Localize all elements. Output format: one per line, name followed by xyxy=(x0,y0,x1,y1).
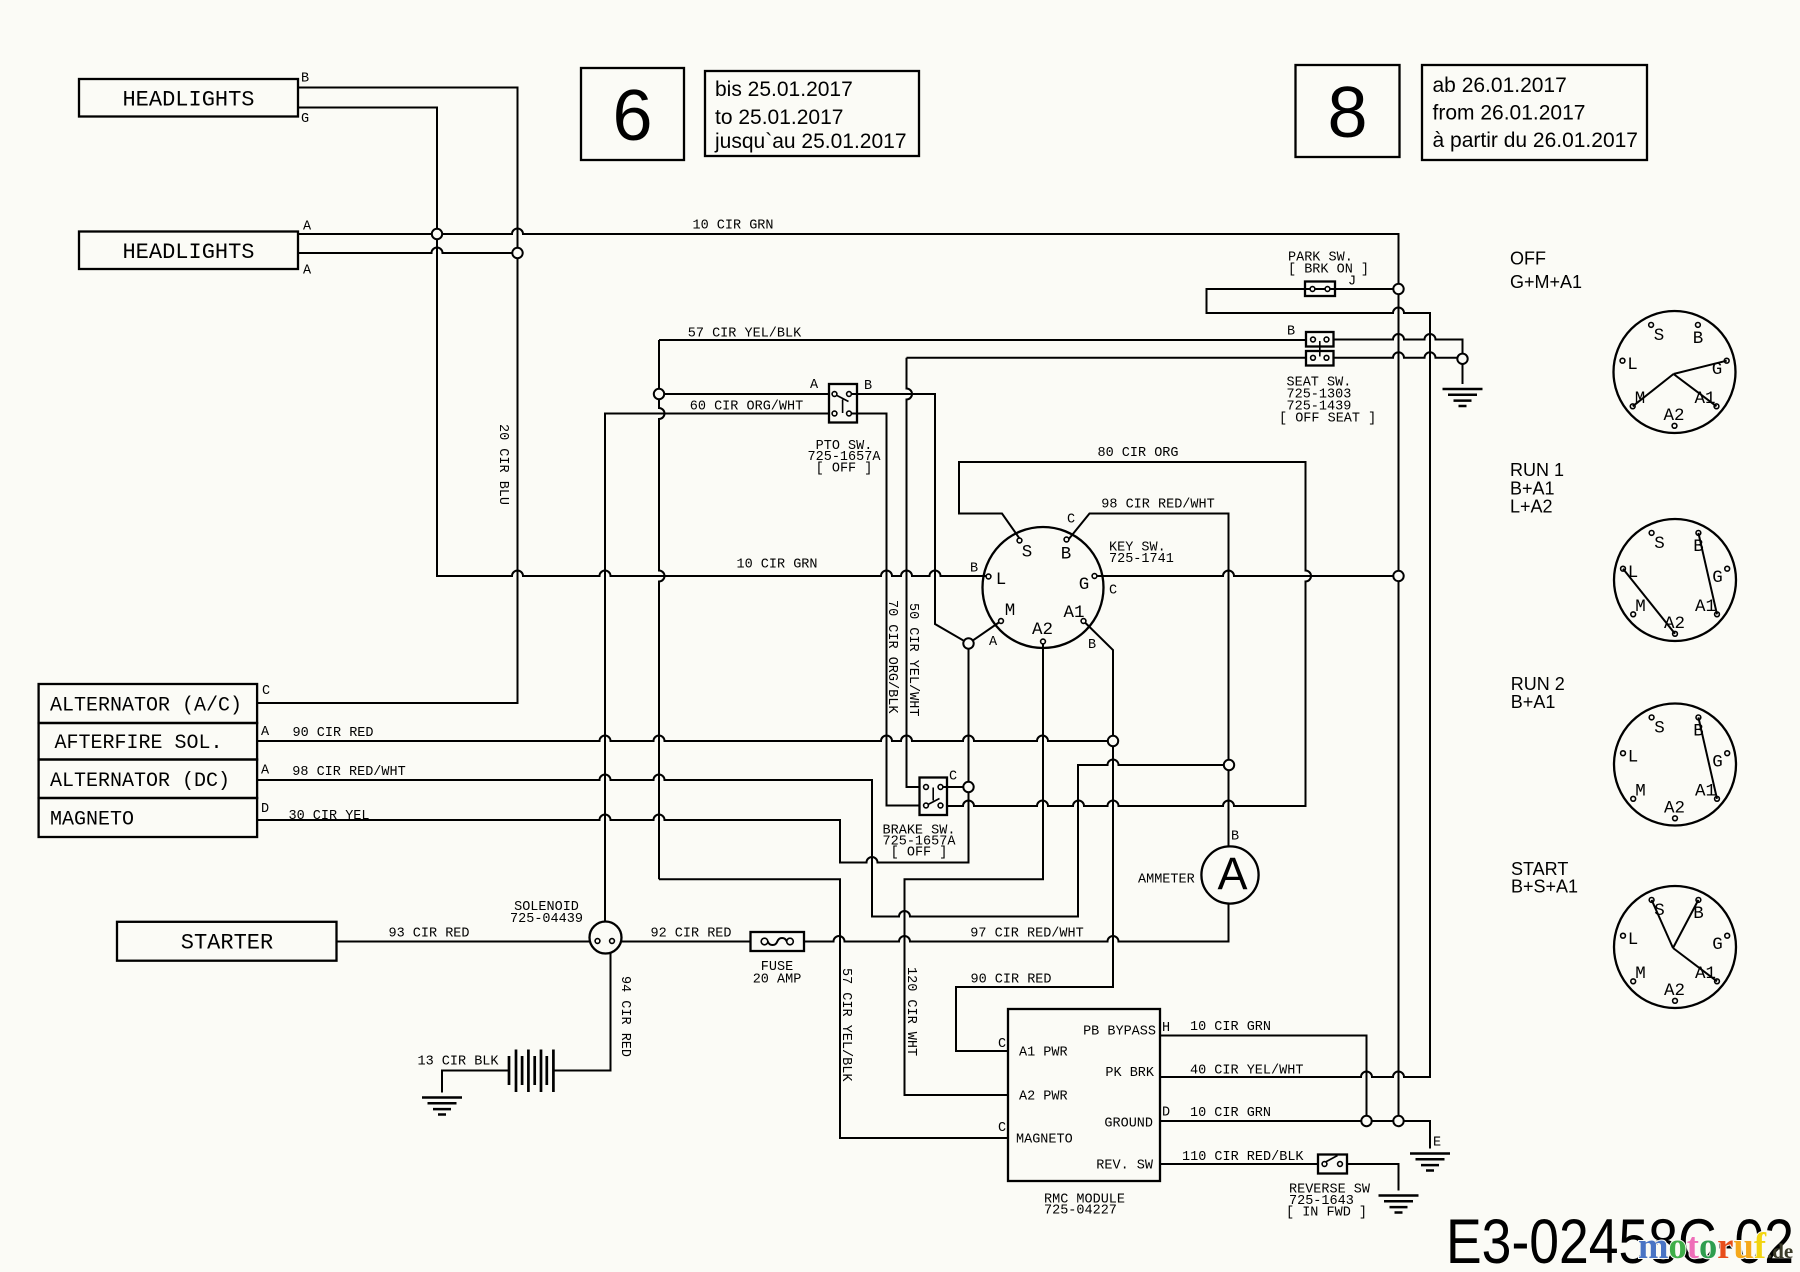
svg-text:HEADLIGHTS: HEADLIGHTS xyxy=(122,240,254,265)
svg-text:STARTER: STARTER xyxy=(181,931,273,956)
svg-text:REV. SW: REV. SW xyxy=(1096,1159,1154,1174)
svg-text:G: G xyxy=(1712,568,1723,588)
svg-text:L: L xyxy=(1628,748,1639,768)
svg-text:50 CIR YEL/WHT: 50 CIR YEL/WHT xyxy=(905,603,920,716)
svg-text:[ BRK ON ]: [ BRK ON ] xyxy=(1288,263,1369,278)
svg-text:A2: A2 xyxy=(1032,620,1053,640)
svg-text:E: E xyxy=(1433,1136,1441,1151)
svg-text:A: A xyxy=(261,725,270,740)
svg-text:A: A xyxy=(810,378,819,393)
svg-text:A2: A2 xyxy=(1664,799,1685,819)
svg-text:98 CIR RED/WHT: 98 CIR RED/WHT xyxy=(292,765,405,780)
svg-text:M: M xyxy=(1635,964,1646,984)
svg-text:B: B xyxy=(1693,329,1704,349)
svg-text:40 CIR YEL/WHT: 40 CIR YEL/WHT xyxy=(1190,1064,1303,1079)
svg-text:20 AMP: 20 AMP xyxy=(753,973,802,988)
svg-text:OFF: OFF xyxy=(1510,249,1546,269)
svg-text:L: L xyxy=(1628,930,1639,950)
svg-text:[ OFF SEAT ]: [ OFF SEAT ] xyxy=(1279,412,1376,427)
svg-text:C: C xyxy=(262,684,270,699)
svg-text:A2: A2 xyxy=(1664,981,1685,1001)
svg-text:D: D xyxy=(261,802,269,817)
svg-text:motoruf: motoruf xyxy=(1638,1226,1767,1267)
svg-text:A: A xyxy=(303,220,312,235)
svg-text:8: 8 xyxy=(1327,73,1367,153)
svg-text:B+S+A1: B+S+A1 xyxy=(1511,877,1578,897)
svg-text:[ IN FWD ]: [ IN FWD ] xyxy=(1286,1206,1367,1221)
svg-text:bis 25.01.2017: bis 25.01.2017 xyxy=(715,78,853,101)
svg-text:B+A1: B+A1 xyxy=(1511,692,1556,712)
svg-text:A: A xyxy=(989,635,998,650)
svg-text:B: B xyxy=(864,379,872,394)
svg-text:G: G xyxy=(1712,753,1723,773)
svg-text:M: M xyxy=(1005,601,1016,621)
svg-text:G: G xyxy=(1079,575,1090,595)
svg-text:57 CIR YEL/BLK: 57 CIR YEL/BLK xyxy=(688,327,802,342)
svg-text:A: A xyxy=(303,264,312,279)
svg-text:MAGNETO: MAGNETO xyxy=(1016,1133,1073,1148)
svg-text:[ OFF ]: [ OFF ] xyxy=(891,846,948,861)
svg-text:120 CIR WHT: 120 CIR WHT xyxy=(903,967,918,1056)
svg-text:A2: A2 xyxy=(1663,406,1684,426)
svg-text:H: H xyxy=(1162,1021,1170,1036)
svg-text:60 CIR ORG/WHT: 60 CIR ORG/WHT xyxy=(690,400,803,415)
svg-text:D: D xyxy=(1162,1106,1170,1121)
svg-text:B+A1: B+A1 xyxy=(1510,479,1555,499)
svg-text:C: C xyxy=(1067,513,1075,528)
svg-text:à partir du 26.01.2017: à partir du 26.01.2017 xyxy=(1433,129,1639,152)
svg-text:6: 6 xyxy=(612,76,652,156)
svg-text:B: B xyxy=(1231,830,1239,845)
svg-text:ab 26.01.2017: ab 26.01.2017 xyxy=(1433,74,1567,97)
svg-text:S: S xyxy=(1022,543,1033,563)
svg-text:GROUND: GROUND xyxy=(1104,1117,1153,1132)
svg-text:70 CIR ORG/BLK: 70 CIR ORG/BLK xyxy=(884,600,899,714)
svg-text:AFTERFIRE SOL.: AFTERFIRE SOL. xyxy=(55,732,223,755)
svg-text:RUN 2: RUN 2 xyxy=(1511,674,1565,694)
svg-text:97 CIR RED/WHT: 97 CIR RED/WHT xyxy=(970,927,1083,942)
svg-text:ALTERNATOR (DC): ALTERNATOR (DC) xyxy=(50,770,230,793)
svg-text:G+M+A1: G+M+A1 xyxy=(1510,272,1582,292)
svg-text:90 CIR RED: 90 CIR RED xyxy=(970,973,1051,988)
svg-text:M: M xyxy=(1635,389,1646,409)
svg-text:A1: A1 xyxy=(1063,603,1084,623)
svg-text:A2 PWR: A2 PWR xyxy=(1019,1090,1068,1105)
svg-text:98 CIR RED/WHT: 98 CIR RED/WHT xyxy=(1101,498,1214,513)
svg-text:A1 PWR: A1 PWR xyxy=(1019,1046,1068,1061)
svg-text:HEADLIGHTS: HEADLIGHTS xyxy=(122,88,254,113)
svg-text:94 CIR RED: 94 CIR RED xyxy=(617,976,632,1057)
svg-text:725-04439: 725-04439 xyxy=(510,912,583,927)
svg-text:90 CIR RED: 90 CIR RED xyxy=(292,726,373,741)
svg-text:ALTERNATOR (A/C): ALTERNATOR (A/C) xyxy=(50,695,242,718)
svg-text:110 CIR RED/BLK: 110 CIR RED/BLK xyxy=(1182,1150,1304,1165)
svg-text:B: B xyxy=(301,72,309,87)
svg-text:10 CIR GRN: 10 CIR GRN xyxy=(736,558,817,573)
svg-text:A: A xyxy=(1217,848,1247,899)
svg-text:30 CIR YEL: 30 CIR YEL xyxy=(288,809,369,824)
svg-text:M: M xyxy=(1635,597,1646,617)
svg-text:57 CIR YEL/BLK: 57 CIR YEL/BLK xyxy=(838,968,853,1082)
svg-text:C: C xyxy=(998,1037,1006,1052)
svg-text:A: A xyxy=(261,764,270,779)
svg-text:93 CIR RED: 93 CIR RED xyxy=(388,927,469,942)
svg-text:13 CIR BLK: 13 CIR BLK xyxy=(417,1055,499,1070)
svg-text:B: B xyxy=(1088,638,1096,653)
svg-text:L+A2: L+A2 xyxy=(1510,497,1553,517)
svg-text:S: S xyxy=(1654,326,1665,346)
svg-text:from 26.01.2017: from 26.01.2017 xyxy=(1433,102,1586,125)
svg-text:20 CIR BLU: 20 CIR BLU xyxy=(495,424,510,505)
svg-text:S: S xyxy=(1654,534,1665,554)
svg-text:RUN 1: RUN 1 xyxy=(1510,460,1564,480)
svg-text:G: G xyxy=(1712,935,1723,955)
svg-text:L: L xyxy=(1627,355,1638,375)
svg-text:B: B xyxy=(1287,325,1295,340)
svg-text:[ OFF ]: [ OFF ] xyxy=(816,462,873,477)
svg-text:10 CIR GRN: 10 CIR GRN xyxy=(692,219,773,234)
svg-text:C: C xyxy=(949,770,957,785)
svg-text:S: S xyxy=(1654,719,1665,739)
svg-text:10 CIR GRN: 10 CIR GRN xyxy=(1190,1106,1271,1121)
svg-text:725-04227: 725-04227 xyxy=(1044,1204,1117,1219)
svg-text:AMMETER: AMMETER xyxy=(1138,873,1195,888)
svg-text:MAGNETO: MAGNETO xyxy=(50,809,134,832)
svg-text:92 CIR RED: 92 CIR RED xyxy=(650,927,731,942)
svg-text:to 25.01.2017: to 25.01.2017 xyxy=(715,106,843,129)
svg-text:.de: .de xyxy=(1767,1239,1793,1263)
svg-text:L: L xyxy=(996,570,1007,590)
svg-text:M: M xyxy=(1635,782,1646,802)
svg-text:B: B xyxy=(970,562,978,577)
svg-text:jusqu`au 25.01.2017: jusqu`au 25.01.2017 xyxy=(714,130,907,153)
svg-text:80 CIR ORG: 80 CIR ORG xyxy=(1097,446,1178,461)
svg-text:G: G xyxy=(301,112,309,127)
svg-text:725-1741: 725-1741 xyxy=(1109,552,1174,567)
svg-text:PK BRK: PK BRK xyxy=(1105,1066,1155,1081)
svg-text:C: C xyxy=(1109,584,1117,599)
svg-text:C: C xyxy=(998,1121,1006,1136)
svg-text:PB BYPASS: PB BYPASS xyxy=(1083,1025,1156,1040)
svg-text:B: B xyxy=(1061,545,1072,565)
svg-text:10 CIR GRN: 10 CIR GRN xyxy=(1190,1020,1271,1035)
